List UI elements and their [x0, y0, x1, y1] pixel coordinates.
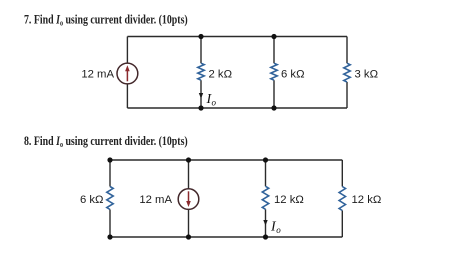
svg-text:o: o: [276, 225, 281, 235]
svg-text:6 kΩ: 6 kΩ: [80, 194, 104, 206]
svg-text:7. Find Io using current divid: 7. Find Io using current divider. (10pts…: [24, 13, 188, 27]
svg-text:12 mA: 12 mA: [81, 68, 114, 80]
svg-text:6 kΩ: 6 kΩ: [281, 68, 305, 80]
svg-text:o: o: [212, 98, 217, 108]
svg-text:8. Find Io using current divid: 8. Find Io using current divider. (10pts…: [24, 135, 188, 149]
svg-text:12 kΩ: 12 kΩ: [274, 194, 304, 206]
svg-text:12 mA: 12 mA: [139, 194, 172, 206]
svg-text:3 kΩ: 3 kΩ: [355, 68, 379, 80]
svg-text:2 kΩ: 2 kΩ: [209, 68, 233, 80]
svg-text:12 kΩ: 12 kΩ: [352, 194, 382, 206]
